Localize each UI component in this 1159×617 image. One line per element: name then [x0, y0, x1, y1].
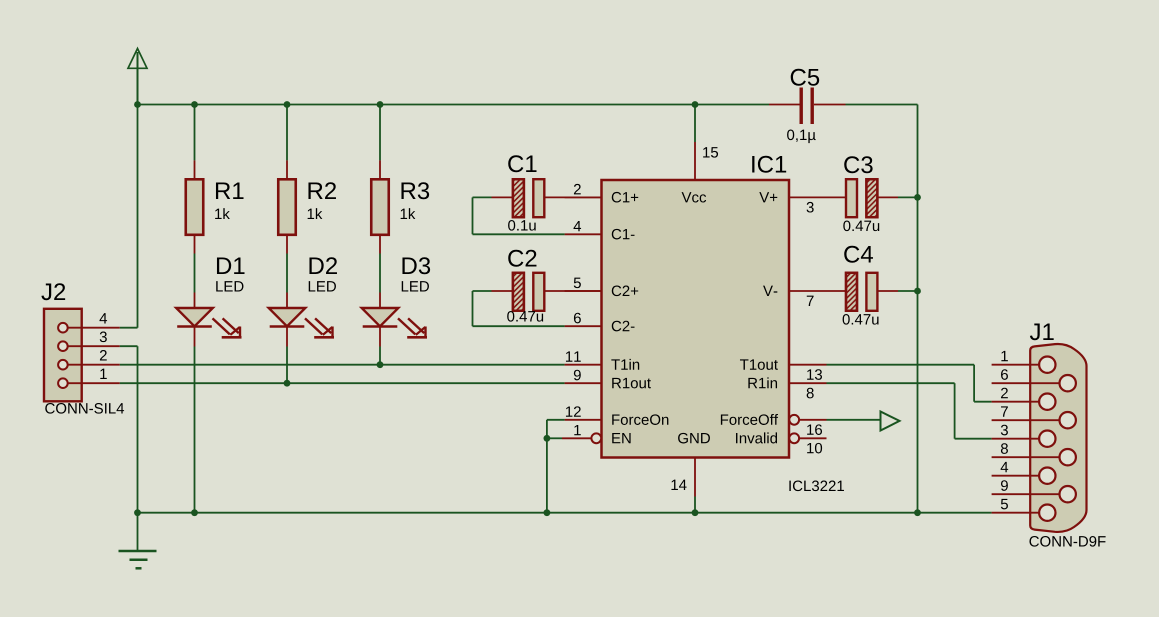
pin 11 stub of IC1	[565, 364, 602, 366]
pin number 14	[671, 480, 686, 490]
label R3	[401, 182, 429, 199]
capacitor C4	[846, 273, 918, 311]
label R1	[216, 182, 244, 199]
wire J2 pin3 to ground rail	[120, 346, 138, 513]
label J2	[41, 283, 65, 300]
pin number 9 of J1	[1001, 480, 1008, 491]
pin number 2	[574, 184, 581, 194]
value 0.47u of C3	[843, 221, 879, 232]
pin number 12	[566, 406, 581, 416]
wire ForceOff with output arrow	[827, 412, 900, 431]
node EN junction	[544, 435, 551, 442]
connector J1 CONN-D9F body	[1030, 344, 1086, 532]
label C3	[844, 156, 872, 173]
node D1 bottom junction	[191, 509, 198, 516]
wire J2 pin2 to T1in	[120, 364, 565, 366]
LED D1	[176, 254, 241, 513]
wire T1out to J1 pin2	[827, 365, 992, 402]
pin number 5 of J1	[1001, 499, 1008, 509]
value 1k R2	[308, 208, 323, 219]
node right-bottom junction	[914, 509, 921, 516]
pin 1 stub of J1	[992, 364, 1041, 366]
pin name R1out	[612, 378, 651, 388]
label D2	[309, 257, 337, 274]
value LED D1	[216, 281, 243, 291]
capacitor C2	[473, 273, 602, 326]
pin name T1in	[611, 359, 639, 370]
value 0,1µ	[787, 130, 816, 144]
label D3	[402, 257, 430, 274]
wire ground rail	[138, 512, 992, 514]
pin 13 T1out stub of IC1	[789, 364, 827, 366]
connector J2 CONN-SIL4	[44, 309, 120, 402]
pin 4 stub of J1	[992, 475, 1041, 477]
value CONN-SIL4	[45, 403, 124, 414]
pin 14 GND stub of IC1	[694, 458, 696, 513]
pin number 4 of J1	[1001, 462, 1009, 472]
pin name Invalid	[736, 432, 777, 443]
wire VCC rail right of C5	[846, 104, 918, 106]
pin name T1out	[740, 359, 778, 369]
pin number 3 of J2	[100, 332, 107, 343]
pin number 2 of J2	[100, 350, 107, 360]
resistor R1	[186, 105, 204, 254]
node ground-left junction	[134, 509, 141, 516]
pin name Vcc	[682, 192, 707, 202]
label C4	[844, 246, 873, 263]
pin number 3	[807, 202, 814, 213]
pin 12 stub of IC1	[565, 419, 602, 421]
label C5	[791, 69, 819, 86]
wire J2 pin1 to R1out	[120, 382, 565, 384]
pin name ForceOn	[612, 414, 668, 425]
label C1	[508, 155, 536, 172]
node C3 junction	[914, 194, 921, 201]
pin number 7	[807, 296, 814, 306]
LED D3	[362, 254, 427, 365]
pin number 6 of J1	[1001, 369, 1008, 380]
pin name C2+	[612, 286, 638, 297]
value LED D2	[309, 281, 336, 291]
node D3 junction on T1in wire	[377, 361, 384, 368]
capacitor C3	[846, 179, 918, 217]
label R2	[308, 182, 336, 199]
pin number 10	[807, 443, 822, 454]
node R3 top junction	[377, 101, 384, 108]
label IC1	[752, 156, 786, 173]
node D2 junction on R1out wire	[284, 380, 291, 387]
pin name ForceOff	[721, 414, 778, 425]
pin 3 stub of J1	[992, 438, 1041, 440]
pin 6 stub of J1	[992, 382, 1061, 384]
pin number 9	[574, 370, 581, 381]
pin number 8	[807, 388, 814, 399]
pin number 1 of J1	[1001, 351, 1007, 361]
node EN rail junction	[544, 509, 551, 516]
node R2 top junction	[284, 101, 291, 108]
node GND pin junction	[692, 509, 699, 516]
pin name V+	[759, 192, 777, 202]
wire right vertical rail	[917, 105, 919, 513]
value 0.47u of C2	[507, 311, 543, 322]
pin 2 stub of IC1	[565, 196, 602, 198]
pin 5 stub of J1	[992, 512, 1041, 514]
pin number 3 of J1	[1001, 425, 1008, 436]
pin 10 Invalid stub of IC1 with inversion circle	[789, 433, 826, 443]
ground	[119, 513, 157, 569]
pin number 4 of J2	[100, 313, 108, 323]
pin 8 R1in stub of IC1	[789, 382, 827, 384]
pin name C1-	[612, 229, 635, 240]
pin 9 stub of IC1	[565, 382, 602, 384]
pin 6 stub of IC1	[565, 325, 602, 327]
pin 7 stub of J1	[992, 419, 1061, 421]
pin number 6	[574, 313, 581, 324]
resistor R3	[371, 105, 389, 254]
label C2	[508, 250, 536, 267]
pin 9 stub of J1	[992, 493, 1061, 495]
pin number 8 of J1	[1001, 443, 1008, 454]
wire EN to junction	[547, 437, 562, 439]
pin 4 stub of IC1	[565, 233, 602, 235]
pin 2 stub of J1	[992, 401, 1041, 403]
value LED D3	[402, 281, 429, 291]
pin number 11	[566, 351, 581, 361]
pin number 13	[807, 369, 822, 380]
value CONN-D9F	[1029, 536, 1105, 547]
node R1 top junction	[191, 101, 198, 108]
label D1	[217, 257, 245, 274]
LED D2	[269, 254, 334, 384]
pin 3 V+ stub of IC1	[789, 196, 846, 198]
pin name V-	[763, 286, 777, 296]
IC U1 ICL3221 body	[602, 180, 790, 458]
capacitor C1	[473, 179, 602, 234]
pin number 1	[574, 425, 580, 435]
node C4 junction	[914, 288, 921, 295]
pin name C2-	[612, 321, 635, 332]
wire R1in to J1 pin3	[827, 383, 992, 439]
value ICL3221	[789, 481, 844, 492]
pin number 4	[574, 221, 582, 231]
wire VCC rail	[138, 104, 770, 106]
pin 16 ForceOff stub of IC1 with inversion circle	[789, 415, 826, 425]
pin number 1 of J2	[100, 369, 106, 379]
pin name EN	[612, 433, 630, 443]
node Vcc pin junction	[692, 101, 699, 108]
pin number 5	[574, 278, 581, 288]
pin number 7 of J1	[1001, 406, 1008, 416]
pin number 15	[703, 147, 718, 157]
value 1k R3	[401, 208, 416, 219]
value 0.1u	[508, 220, 536, 231]
pin 1 stub of IC1 with inversion circle	[562, 433, 601, 443]
pin 5 stub of IC1	[565, 290, 602, 292]
pin name C1+	[612, 192, 638, 203]
wire ForceOn to EN vertical	[547, 420, 565, 513]
pin 8 stub of J1	[992, 456, 1061, 458]
node VCC-left junction	[134, 101, 141, 108]
wire J2 pin4 to VCC rail	[120, 105, 138, 328]
pin number 16	[807, 424, 822, 435]
power symbol VCC	[128, 49, 147, 105]
resistor R2	[278, 105, 296, 254]
capacitor C5	[769, 88, 846, 125]
pin number 2 of J1	[1001, 388, 1008, 398]
label J1	[1030, 323, 1054, 340]
pin 7 V- stub of IC1	[789, 290, 846, 292]
pin name R1in	[748, 377, 777, 388]
value 0.47u of C4	[843, 314, 879, 325]
value 1k R1	[215, 208, 230, 219]
pin 15 Vcc stub of IC1	[694, 105, 696, 181]
pin name GND	[678, 433, 710, 444]
